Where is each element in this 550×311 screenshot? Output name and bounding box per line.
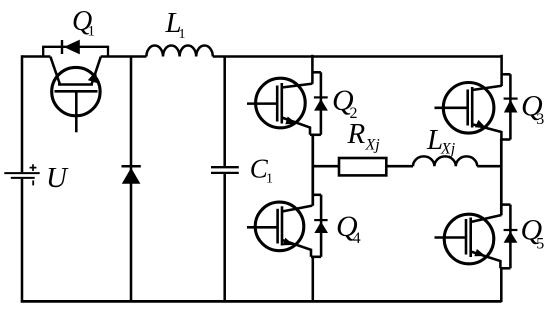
svg-text:1: 1 (266, 171, 273, 186)
battery plus sign (30, 164, 37, 171)
diode of Q3 line (509, 74, 512, 139)
diode of Q3 cathode bar (504, 97, 518, 99)
inductor LXj (413, 156, 477, 166)
diode of Q2 line (320, 72, 323, 135)
diode of Q4 triangle (314, 222, 328, 233)
Q5 emitter arrow (474, 249, 485, 256)
wire top rail left stub (22, 55, 50, 58)
wire Q2 top jog to diode (312, 71, 321, 74)
battery U top plate (4, 172, 39, 174)
Q3 channel bar (471, 87, 474, 128)
Q5 gate bar (465, 219, 468, 255)
wire Q2 collector stub (311, 55, 314, 84)
Q3 gate bar (466, 90, 469, 126)
svg-text:U: U (46, 162, 69, 194)
diode of Q1 triangle (64, 40, 80, 55)
wire left vertical lower (battery bottom lead) (21, 179, 24, 303)
Q1 gate bar (lower) (55, 90, 98, 93)
wire Q3 top jog to diode (501, 73, 511, 76)
Q3 emitter diagonal (472, 124, 501, 139)
svg-text:1: 1 (179, 27, 186, 42)
wire Q4 top jog to diode (312, 194, 322, 197)
wire inductor to right leg (477, 165, 501, 168)
wire Q1 diode loop (43, 47, 108, 57)
Q3 gate lead (435, 107, 468, 110)
Q5 channel bar (469, 218, 472, 258)
wire bottom bus (21, 300, 502, 303)
wire right leg mid (Q3 to Q5) (500, 139, 503, 216)
Q1 collector diagonal (50, 57, 60, 85)
diode of Q1 (points left) cathode bar (61, 40, 63, 54)
wire Q4 bottom jog (311, 256, 321, 259)
wire left vertical upper (battery top lead) (21, 55, 24, 172)
Q1 gate lead (75, 91, 78, 132)
wire Q3 collector stub (500, 55, 503, 86)
diode of Q2 cathode bar (314, 96, 328, 98)
Q5 emitter diagonal (471, 252, 501, 269)
diode of Q4 line (320, 195, 323, 257)
Q4 collector diagonal (282, 206, 312, 212)
Q2 emitter arrow (285, 117, 297, 125)
wire freewheel diode branch vertical (130, 57, 133, 303)
diode of Q5 cathode bar (504, 229, 518, 231)
svg-text:4: 4 (353, 230, 361, 247)
battery minus tick (32, 180, 34, 185)
svg-text:1: 1 (88, 23, 96, 39)
Q5 gate lead (435, 236, 467, 239)
wire top rail L1 to right corner (213, 55, 502, 58)
freewheel diode cathode bar (122, 165, 141, 168)
battery U bottom plate (11, 177, 35, 179)
Q2 channel bar (280, 83, 283, 124)
wire Q4 emitter to bottom bus (312, 256, 315, 302)
diode of Q4 cathode bar (314, 219, 327, 221)
Q1 emitter arrow (88, 71, 98, 84)
diode of Q3 triangle (504, 100, 518, 113)
capacitor C1 bottom plate (211, 172, 239, 174)
wire C1 branch upper (223, 57, 226, 168)
wire left leg mid (Q2 to Q4) (311, 134, 314, 206)
transistor Q1 circle (52, 67, 100, 115)
Q4 gate bar (276, 209, 279, 244)
capacitor C1 top plate (211, 166, 239, 168)
wire C1 branch lower (223, 173, 226, 302)
transistor Q2 circle (256, 78, 306, 128)
svg-text:5: 5 (536, 235, 544, 252)
diode of Q5 triangle (504, 231, 518, 242)
wire mid rail to resistor (313, 165, 339, 168)
inductor L1 (146, 45, 212, 56)
Q4 gate lead (247, 226, 278, 229)
Q2 gate lead (247, 102, 277, 105)
wire Q5 bottom jog (500, 267, 510, 270)
wire Q5 top jog to diode (501, 203, 511, 206)
Q2 gate bar (276, 86, 279, 122)
resistor RXj body (339, 158, 386, 175)
wire Q2 bottom jog (310, 134, 321, 137)
Q3 collector diagonal (472, 86, 502, 90)
svg-text:R: R (347, 118, 366, 150)
wire Q3 bottom jog (501, 138, 510, 141)
Q2 collector diagonal (282, 84, 313, 88)
Q3 emitter arrow (475, 120, 487, 128)
wire top rail Q1 to L1 (101, 55, 147, 58)
transistor Q3 circle (443, 83, 494, 134)
Q2 emitter diagonal (282, 118, 310, 135)
wire Q5 emitter to bottom bus (500, 267, 503, 302)
wire resistor to inductor (386, 165, 413, 168)
transistor Q4 circle (255, 202, 304, 251)
svg-text:3: 3 (536, 111, 544, 128)
Q4 emitter diagonal (282, 240, 311, 257)
Q1 emitter diagonal (92, 57, 101, 85)
Q5 collector diagonal (471, 215, 502, 222)
svg-text:Xj: Xj (365, 137, 381, 154)
diode of Q2 triangle (314, 99, 328, 111)
diode of Q5 line (509, 205, 512, 269)
Q1 channel bar (upper) (58, 83, 93, 86)
freewheel diode triangle (122, 168, 141, 184)
Q4 channel bar (281, 206, 284, 245)
svg-text:Xj: Xj (440, 140, 456, 157)
Q4 emitter arrow (283, 238, 294, 246)
transistor Q5 circle (444, 214, 494, 264)
